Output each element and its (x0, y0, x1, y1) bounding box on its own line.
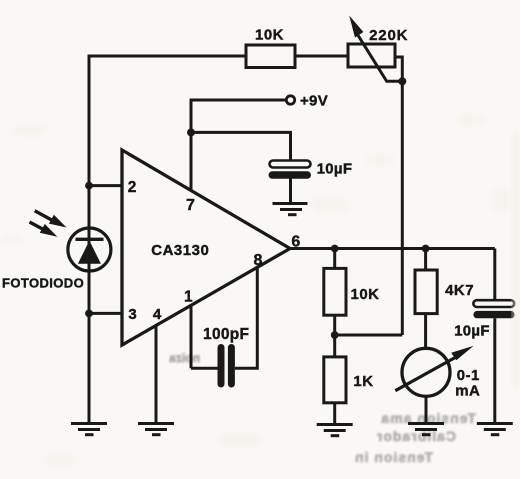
svg-text:4: 4 (153, 306, 162, 323)
resistor 4K7 (415, 270, 437, 314)
scan edge band right (512, 130, 520, 390)
wire feedback horizontal to 10K/1K junction (335, 334, 403, 337)
photodiode cathode bar (76, 238, 104, 241)
wire 220K right terminal down to junction (395, 57, 402, 81)
wire 10uF cap to ground (289, 179, 292, 204)
wire pin 1 down (190, 304, 193, 368)
svg-text:mA: mA (455, 383, 480, 400)
node dot pin3/photodiode bottom (85, 310, 93, 318)
svg-text:0-1: 0-1 (457, 367, 480, 384)
capacitor 10uF right top plate (hollow) (473, 300, 514, 307)
svg-text:100pF: 100pF (203, 326, 249, 343)
paper mottling (0, 114, 510, 466)
wire 10K right to junction (333, 315, 336, 335)
svg-text:Calibrador: Calibrador (376, 428, 456, 444)
junction dot 220K bottom (398, 77, 406, 85)
node dot output/4K7 (422, 245, 430, 253)
resistor 1K (324, 357, 346, 403)
svg-text:10µF: 10µF (317, 160, 353, 177)
ground meter (408, 424, 444, 435)
node dot pin2/photodiode top (85, 182, 93, 190)
svg-text:8: 8 (254, 252, 263, 269)
svg-text:Tension ama: Tension ama (380, 410, 476, 426)
photodiode anode triangle (78, 241, 101, 264)
svg-text:3: 3 (128, 306, 136, 323)
svg-text:10µF: 10µF (454, 323, 490, 340)
ground 10uF right (477, 424, 513, 435)
svg-text:2: 2 (128, 179, 137, 196)
ground photodiode (71, 424, 107, 435)
wire pin 4 to ground (155, 326, 158, 424)
light arrow upper (35, 211, 67, 228)
capacitor 10uF bottom plate (filled) (269, 171, 312, 179)
svg-text:220K: 220K (369, 27, 408, 44)
terminal +9V circle (286, 96, 294, 104)
svg-text:6: 6 (291, 233, 300, 250)
node supply junction dot (187, 128, 195, 136)
wire output pin 6 (290, 247, 495, 250)
wire feedback vertical from 220K junction down (401, 81, 404, 335)
capacitor 100pF left plate (218, 344, 225, 388)
svg-text:Tension in: Tension in (354, 449, 433, 465)
svg-text:noiza: noiza (169, 351, 200, 365)
ground below 10uF top cap (273, 204, 308, 215)
svg-text:FOTODIODO: FOTODIODO (2, 276, 84, 291)
photodiode D1 circle (68, 228, 111, 271)
potentiometer 220K wiper arrow (349, 16, 402, 82)
svg-text:CA3130: CA3130 (151, 242, 209, 259)
wire output end down to 10uF right cap (493, 249, 496, 301)
wire junction to 1K (333, 335, 336, 357)
ghost show-through text bottom right (354, 410, 476, 465)
capacitor 10uF top plate (positive, hollow) (270, 161, 311, 168)
resistor 10K right (324, 268, 346, 315)
meter needle arrow (395, 346, 473, 391)
svg-text:1K: 1K (353, 373, 373, 390)
wire pin 2 (89, 184, 122, 187)
light arrow lower (30, 222, 58, 237)
node dot output/10K (331, 245, 339, 253)
svg-text:7: 7 (186, 197, 195, 214)
op-amp U1 CA3130 triangle (122, 150, 290, 345)
wire left vertical and top horizontal to 10K (89, 56, 246, 423)
wire 4K7 to meter (424, 314, 427, 349)
capacitor 100pF right plate (228, 344, 235, 388)
wire output node to 10K right (333, 249, 336, 269)
node dot 10K/1K junction (331, 331, 339, 339)
wire 1K to ground (333, 403, 336, 424)
svg-text:4K7: 4K7 (445, 282, 474, 299)
svg-text:+9V: +9V (300, 93, 328, 110)
svg-text:1: 1 (184, 289, 193, 306)
potentiometer 220K body (348, 44, 395, 67)
wire 10uF right cap to ground (493, 318, 496, 423)
wire pin 3 (89, 312, 122, 315)
capacitor 10uF right bottom plate (filled) (473, 311, 514, 318)
wire output node to 4K7 (424, 249, 427, 271)
wire supply node to 10uF cap (191, 132, 291, 160)
wire meter to ground (425, 396, 428, 423)
svg-text:10K: 10K (350, 286, 379, 303)
svg-text:10K: 10K (255, 27, 284, 44)
ground 1K (317, 425, 353, 436)
meter M1 0-1mA circle (402, 348, 450, 396)
wire +9V to pin 7 (191, 100, 285, 191)
wire pin1 to 100pF left plate (191, 367, 218, 370)
wire 100pF right plate up to pin 8 (235, 267, 257, 368)
ground pin4 (138, 424, 174, 435)
wire 10K to 220K (295, 55, 348, 58)
resistor R 10K top (246, 45, 295, 68)
